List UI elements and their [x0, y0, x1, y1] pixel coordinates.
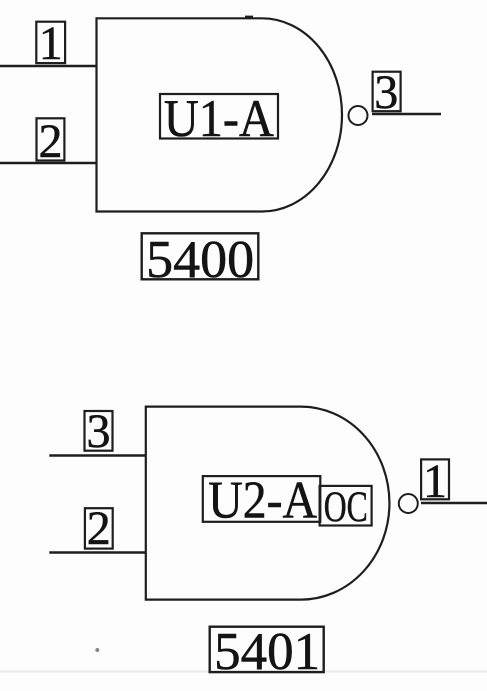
wire pin3 input U2-A: [49, 454, 146, 456]
faint scan line at bottom: [0, 671, 487, 673]
part number 5401: [210, 623, 324, 681]
svg-text:3: 3: [374, 66, 398, 119]
scan artifact bump on top edge: [245, 16, 253, 18]
designator box U1-A: [160, 90, 278, 148]
wire pin1 input U1-A: [0, 65, 97, 67]
designator box U2-A: [203, 472, 320, 530]
gate U2-A body (5401 NAND OC): [146, 407, 390, 600]
wire pin1 output U2-A: [421, 502, 487, 504]
svg-text:1: 1: [39, 17, 63, 70]
svg-text:5401: 5401: [214, 623, 320, 681]
inversion bubble U1-A output: [349, 106, 368, 125]
gate U1-A body (5400 NAND): [97, 18, 343, 211]
pin 1 label U2-A output: [421, 455, 449, 508]
wire pin2 input U1-A: [0, 162, 97, 164]
svg-text:5400: 5400: [146, 231, 254, 289]
svg-text:2: 2: [39, 115, 63, 168]
svg-text:U1-A: U1-A: [164, 90, 274, 148]
pin 3 label U2-A: [85, 405, 113, 458]
pin 1 label U1-A: [36, 17, 65, 70]
OC (open collector) box: [320, 484, 372, 531]
svg-text:2: 2: [87, 502, 111, 555]
svg-text:3: 3: [87, 405, 111, 458]
pin 2 label U2-A: [85, 502, 113, 555]
stray ink dot: [95, 648, 99, 652]
inversion bubble U2-A output: [399, 494, 418, 513]
part number 5400: [142, 231, 259, 289]
wire pin2 input U2-A: [49, 551, 146, 553]
svg-text:OC: OC: [324, 484, 368, 531]
svg-text:1: 1: [423, 455, 447, 508]
svg-text:U2-A: U2-A: [208, 472, 317, 530]
pin 3 label U1-A output: [373, 66, 401, 119]
wire pin3 output U1-A: [372, 113, 441, 115]
pin 2 label U1-A: [37, 115, 65, 168]
